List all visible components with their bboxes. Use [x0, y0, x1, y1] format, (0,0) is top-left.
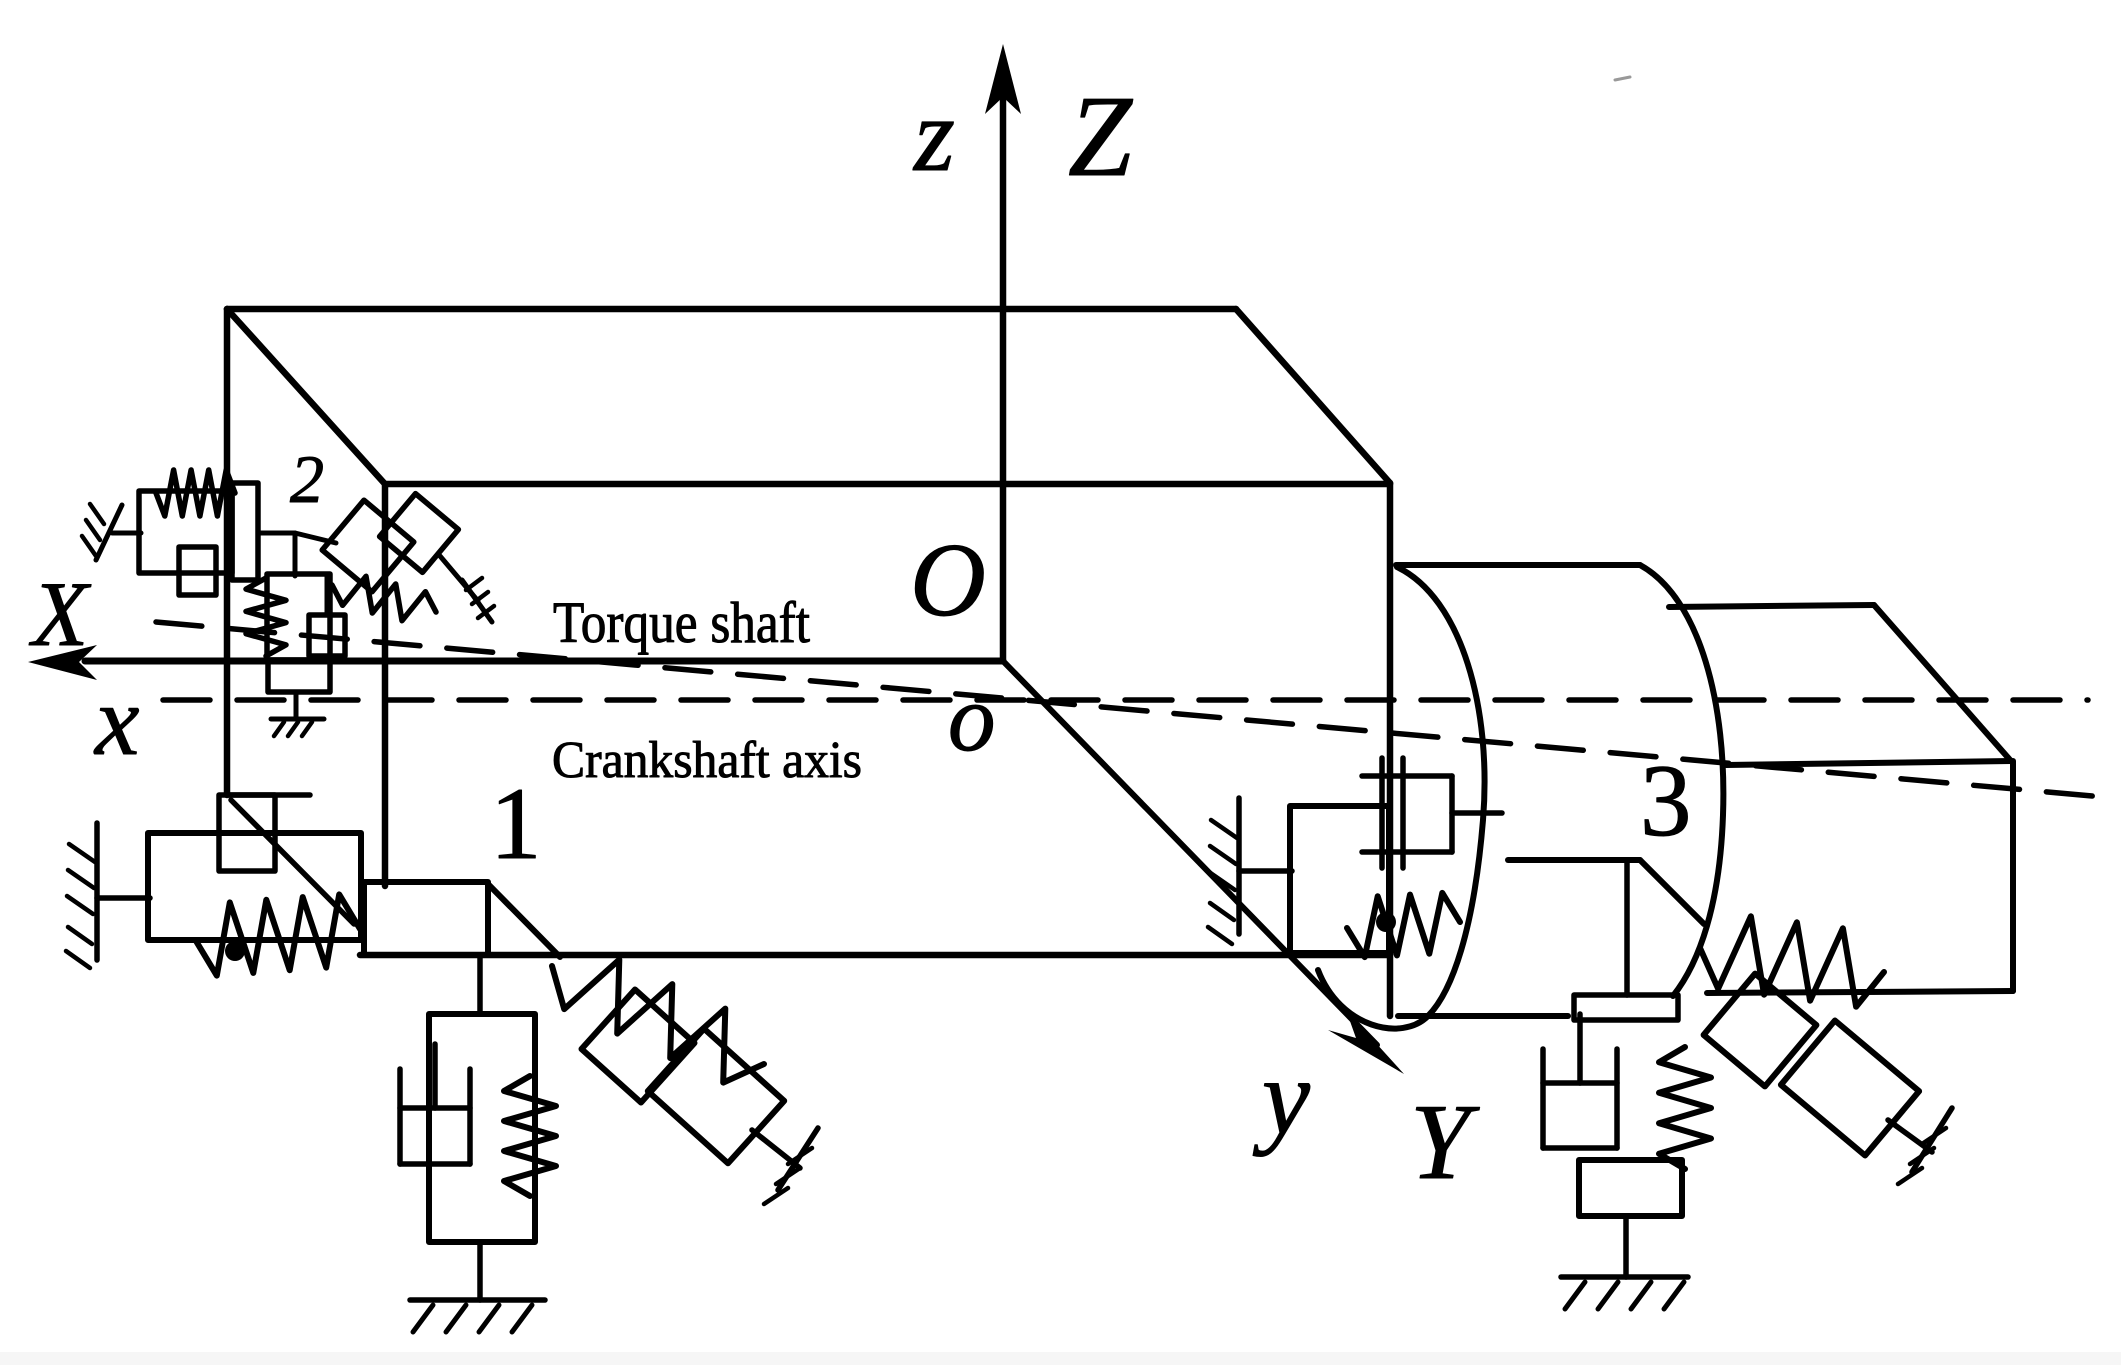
transmission bottom edge [1707, 991, 2013, 993]
mount2 ground hatch right [462, 578, 494, 622]
mount2 leg damper rect [309, 615, 345, 656]
svg-text:X: X [28, 563, 92, 665]
mount2 leg ground [271, 719, 324, 736]
mount3 frame rect [1290, 806, 1389, 953]
mount2 link to leg [295, 533, 336, 543]
engine box top-right slant edge [1236, 309, 1390, 483]
engine box front bottom edge [360, 952, 1390, 959]
flywheel housing bottom bar [1508, 857, 1640, 863]
transmission top-right slant edge [1874, 605, 2011, 761]
engine box top-left slant edge [227, 309, 385, 484]
mount1 diagonal damper square [219, 795, 275, 871]
svg-text:y: y [1252, 1038, 1310, 1157]
mount1 main rect [148, 833, 361, 940]
mount3 ground hatch left [1208, 798, 1239, 944]
mount1 leg stem bottom [477, 1242, 483, 1300]
mount1 top bar [227, 792, 310, 798]
engine box back top edge [227, 306, 1236, 313]
mount1 diagonal line [231, 800, 354, 924]
mount3 spring [1347, 893, 1460, 957]
engine box front top edge [385, 481, 1390, 488]
mount2 ground hatch upper-left [82, 504, 122, 560]
Y axis arrowhead [1328, 1010, 1404, 1074]
mount3 rotated square H [1704, 974, 1817, 1087]
mount3 diagonal rod [1888, 1120, 1932, 1152]
mount2 main rect [139, 491, 232, 573]
flywheel housing bottom slant [1640, 860, 1704, 924]
svg-text:Z: Z [1068, 73, 1133, 200]
mount1 rotated rect G [648, 1029, 784, 1164]
mount2 small damper square [179, 547, 216, 595]
mount1 diagonal spring [552, 960, 764, 1083]
svg-text:Torque shaft: Torque shaft [553, 590, 810, 655]
mount2 diagonal spring [332, 576, 436, 620]
mount1 rotated square F [582, 990, 695, 1103]
mount3 ground link [1239, 868, 1292, 874]
mount2 tall narrow rect [232, 483, 258, 580]
mount3 leg ground [1561, 1277, 1688, 1309]
Y axis line [1003, 661, 1377, 1045]
mount1 leg spring [504, 1076, 556, 1196]
mount3 leg spring [1659, 1047, 1711, 1169]
flywheel front ellipse arc [1318, 567, 1485, 1029]
mount2 leg vertical spring [246, 578, 286, 656]
mount1 ground hatch left [66, 823, 97, 968]
mount3 leg lower rect [1579, 1160, 1682, 1216]
mount3 rotated rect I [1781, 1021, 1919, 1156]
mount3 leg top bar rect [1574, 995, 1678, 1020]
svg-text:z: z [912, 76, 955, 193]
transmission right edge [2010, 761, 2016, 991]
svg-text:x: x [93, 665, 139, 776]
mount1 diagonal rod [752, 1130, 800, 1168]
mount2 rotated square E [380, 494, 459, 573]
svg-text:Y: Y [1410, 1083, 1480, 1202]
mount2 link to rotated damper [258, 533, 295, 576]
transmission front top edge [1726, 761, 2011, 765]
mount3 ground hatch right [1898, 1108, 1952, 1184]
mount1 leg damper cup [400, 1044, 470, 1164]
X axis line [85, 658, 1003, 665]
transmission top back edge [1669, 605, 1874, 607]
mount1 leg frame rect [429, 1014, 535, 1242]
engine box front right edge [1387, 483, 1394, 1016]
svg-text:3: 3 [1640, 744, 1692, 858]
flywheel bottom edge [1398, 1013, 1568, 1019]
small mark top right [1615, 77, 1630, 80]
Z axis arrowhead [985, 44, 1021, 114]
flywheel top edge [1396, 562, 1640, 568]
mount2 leg damper rod [325, 574, 330, 615]
torque shaft dashed line [156, 622, 2115, 798]
mount2 horizontal spring on top [156, 470, 235, 516]
mount1 corner diagonal [488, 884, 560, 957]
mount2 leg stem [294, 692, 299, 719]
bottom gray strip [0, 1352, 2121, 1365]
mount1 spring dot [225, 941, 245, 961]
mount3 leg damper cup [1543, 1014, 1617, 1148]
mount1 leg stem top [477, 955, 483, 1014]
svg-text:o: o [948, 665, 996, 771]
mount2 leg frame rect [267, 574, 330, 660]
mount1 bottom spring [196, 894, 360, 975]
svg-text:Crankshaft axis: Crankshaft axis [552, 732, 862, 789]
mount1 leg ground [410, 1300, 545, 1332]
crankshaft axis dashed line [163, 697, 2088, 703]
svg-text:1: 1 [490, 767, 542, 881]
svg-text:2: 2 [290, 441, 324, 517]
mount2 diagonal rod to ground [440, 556, 478, 601]
engine box left back edge [224, 309, 231, 795]
Z axis line [1000, 100, 1007, 661]
mount3 diagonal spring [1700, 916, 1884, 1006]
mount2 leg lower rect [268, 660, 330, 692]
X axis arrowhead [28, 645, 97, 680]
mount1 connection rect [364, 882, 488, 955]
mount2 ground link [112, 531, 141, 536]
mount3 damper piston [1362, 758, 1502, 868]
flywheel back ellipse arc [1640, 565, 1723, 996]
mount1 ground link [97, 895, 150, 901]
mount3 spring dot [1376, 912, 1396, 932]
mount3 leg stem bottom [1623, 1216, 1629, 1277]
svg-text:O: O [910, 521, 986, 638]
mount3 leg stem top [1624, 862, 1630, 995]
mount2 rotated square D [322, 500, 414, 592]
engine box front left edge [382, 484, 389, 886]
mount1 ground hatch right [764, 1128, 818, 1204]
